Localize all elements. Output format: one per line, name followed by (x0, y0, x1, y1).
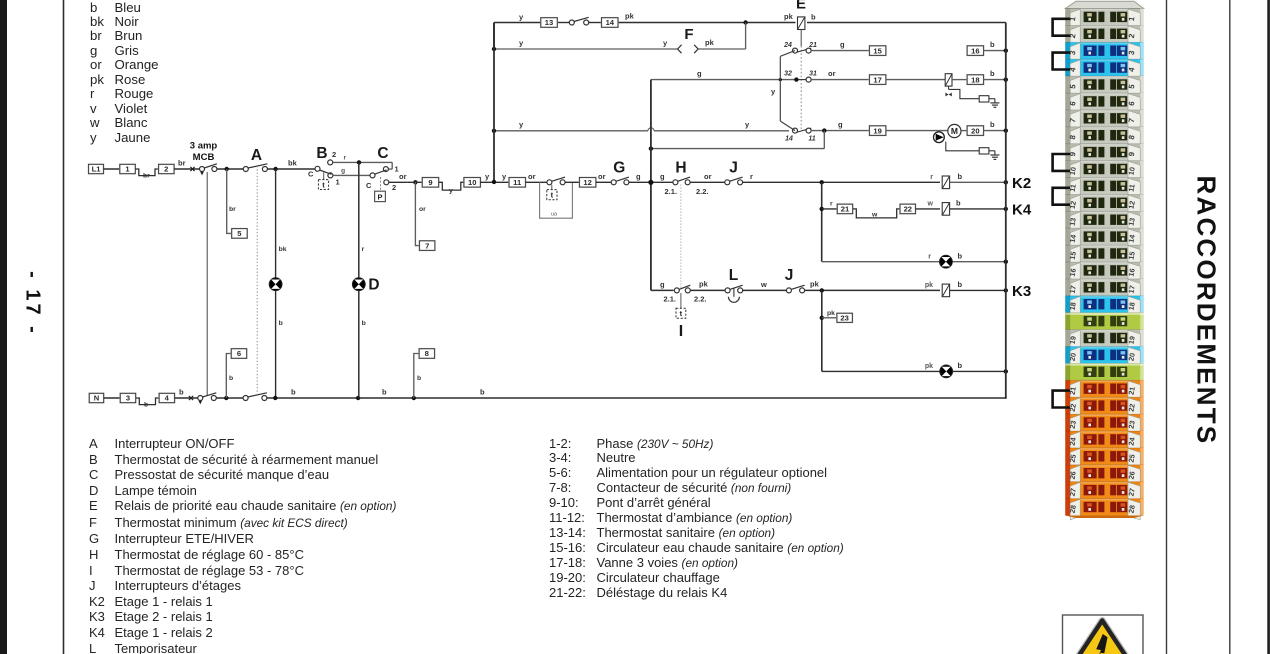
wire g return (651, 148, 824, 150)
svg-text:18: 18 (1068, 302, 1078, 311)
wire K4 vertical (821, 182, 823, 261)
svg-text:G: G (613, 160, 625, 177)
svg-text:20: 20 (1068, 352, 1078, 361)
wire 19-M (886, 130, 948, 132)
jumper bridge terminals 3-4 (1053, 53, 1070, 70)
svg-text:b: b (990, 120, 995, 129)
svg-text:C: C (377, 145, 388, 162)
terminal box 7 (419, 241, 435, 251)
switch J2 (786, 288, 791, 293)
breaker MCB neutral (198, 396, 203, 401)
node F left (492, 47, 496, 51)
node (356, 396, 360, 400)
terminal strip top cap (1065, 1, 1143, 8)
svg-text:14: 14 (1127, 234, 1137, 243)
svg-text:b: b (990, 69, 995, 78)
svg-text:D: D (368, 277, 379, 294)
wire pk lamp line (822, 370, 940, 372)
svg-text:2.2.: 2.2. (694, 295, 707, 304)
svg-text:24: 24 (1127, 437, 1137, 446)
svg-text:y: y (449, 188, 453, 195)
svg-text:w: w (927, 201, 934, 208)
breaker MCB phase (200, 167, 205, 172)
svg-text:or: or (828, 69, 836, 78)
svg-text:14: 14 (606, 18, 615, 27)
svg-text:J: J (785, 267, 794, 284)
node or junction (413, 180, 417, 184)
svg-text:24: 24 (783, 42, 792, 49)
terminal box 2 (159, 164, 175, 173)
lamp D indicator (352, 278, 365, 291)
node (225, 167, 229, 171)
wire g rail (650, 80, 652, 291)
warning triangle (1076, 621, 1128, 654)
svg-text:y: y (485, 172, 490, 181)
wire B2 bypass (333, 161, 393, 163)
terminal box 4 (159, 393, 175, 402)
svg-text:b: b (417, 375, 421, 382)
svg-text:15: 15 (1127, 251, 1137, 260)
svg-text:pk: pk (784, 12, 794, 21)
svg-text:15: 15 (1068, 251, 1078, 260)
terminal row 16 (1065, 262, 1143, 279)
wire g to E (651, 79, 795, 81)
svg-text:b: b (291, 388, 296, 397)
svg-text:br: br (229, 206, 236, 213)
terminal box 16 (967, 46, 984, 56)
svg-text:13: 13 (1068, 217, 1078, 226)
svg-text:18: 18 (971, 75, 979, 84)
svg-text:b: b (958, 361, 963, 370)
terminal row 11 (1065, 178, 1143, 195)
terminal row 18 (1065, 296, 1143, 313)
switch A (243, 167, 248, 172)
terminal box 5 (232, 229, 248, 239)
lamp indicator (269, 278, 282, 291)
svg-text:11: 11 (808, 136, 815, 143)
svg-text:w: w (760, 280, 767, 289)
wire to box8 (414, 354, 420, 399)
terminal box 20 (967, 126, 984, 136)
page border line left (63, 0, 65, 654)
svg-text:2: 2 (164, 165, 168, 174)
svg-text:pk: pk (625, 12, 635, 21)
terminal row 24 (1065, 431, 1143, 448)
svg-text:b: b (229, 375, 233, 382)
wire to box6 (226, 354, 231, 399)
terminal row 21 (1065, 380, 1143, 397)
thermostat B (315, 166, 320, 171)
wire (950, 289, 1006, 291)
svg-text:3 amp: 3 amp (190, 141, 218, 152)
svg-text:25: 25 (1127, 454, 1137, 463)
column line 1 (1166, 0, 1168, 654)
svg-text:or: or (598, 172, 606, 181)
terminal box 10 (464, 178, 481, 188)
wire (916, 208, 940, 210)
svg-text:17: 17 (1127, 285, 1137, 294)
wire (989, 150, 995, 152)
svg-text:B: B (316, 145, 327, 162)
svg-text:b: b (382, 388, 387, 397)
wire y line (494, 130, 648, 132)
svg-text:10: 10 (1127, 166, 1137, 175)
svg-text:26: 26 (1127, 471, 1137, 480)
svg-text:b: b (279, 320, 283, 327)
wire (596, 181, 612, 183)
wire C out (389, 181, 407, 183)
node rail 16 (1004, 48, 1008, 52)
wire (104, 397, 121, 399)
node rail bottom (492, 180, 496, 184)
node rail lamp (1004, 260, 1008, 264)
wire valve-ground (949, 89, 980, 98)
svg-text:19: 19 (1068, 335, 1078, 344)
terminal row earth-green (1065, 363, 1143, 380)
svg-text:K4: K4 (1012, 202, 1032, 219)
terminal box 6 (231, 349, 247, 359)
wire N corner (1005, 397, 1007, 399)
svg-text:pk: pk (705, 38, 715, 47)
thermostat t box I (676, 308, 686, 318)
switch G (611, 180, 616, 185)
svg-text:b: b (480, 388, 485, 397)
svg-text:27: 27 (1068, 487, 1078, 496)
node rail K2 (1004, 180, 1008, 184)
svg-text:20: 20 (971, 126, 979, 135)
svg-text:b: b (956, 199, 961, 208)
node (273, 167, 277, 171)
relay coil K2 (942, 176, 949, 189)
svg-text:w: w (871, 212, 878, 219)
node rail K3 (1004, 288, 1008, 292)
svg-text:10: 10 (468, 178, 476, 187)
component legend (89, 436, 396, 654)
terminal row 2 (1065, 25, 1143, 42)
node y left (492, 129, 496, 133)
svg-text:b: b (958, 172, 963, 181)
svg-text:I: I (679, 323, 683, 340)
wire 20-rail (984, 130, 1006, 132)
wire K3 vertical (821, 290, 823, 371)
svg-text:y: y (519, 13, 524, 22)
svg-text:11: 11 (513, 178, 522, 187)
terminal row 9 (1065, 144, 1143, 161)
terminal row 8 (1065, 127, 1143, 144)
svg-text:3: 3 (126, 394, 130, 403)
node 11 junction (822, 128, 826, 132)
svg-text:b: b (362, 320, 366, 327)
wire wiggle b (136, 398, 159, 405)
wire (481, 181, 510, 183)
terminal box 3 (120, 393, 136, 402)
terminal box 15 (869, 46, 886, 56)
page left black margin bar (0, 0, 7, 654)
pump symbol (934, 132, 945, 143)
terminal row 22 (1065, 397, 1143, 414)
terminal box 21 (837, 204, 853, 214)
jumper bridge terminals 9-10 (1053, 154, 1070, 171)
timer L (725, 288, 730, 293)
svg-text:or: or (419, 206, 426, 213)
node (273, 396, 277, 400)
wire (104, 168, 121, 170)
terminal box 18 (967, 75, 984, 85)
terminal box 12 (579, 178, 596, 188)
svg-text:A: A (251, 147, 262, 164)
wire 21-15 (811, 50, 870, 52)
svg-text:2.2.: 2.2. (696, 187, 709, 196)
wire (175, 397, 198, 399)
terminal box 9 (422, 178, 439, 188)
thermostat housing (540, 182, 573, 218)
jumper bridge terminals 11-12 (1053, 188, 1070, 205)
svg-text:b: b (179, 388, 184, 397)
svg-text:g: g (660, 172, 665, 181)
svg-text:32: 32 (784, 71, 792, 78)
terminal row 19 (1065, 330, 1143, 347)
svg-text:br: br (178, 159, 186, 168)
wire (989, 98, 995, 100)
wire wiggle y (439, 182, 465, 190)
node (224, 396, 228, 400)
terminal row 13 (1065, 211, 1143, 228)
wire (743, 181, 940, 183)
wire B t-link (323, 172, 325, 179)
terminal box L1 (89, 164, 104, 173)
svg-text:2.1.: 2.1. (665, 187, 678, 196)
terminal row 15 (1065, 245, 1143, 262)
lamp K3 indicator (940, 365, 953, 378)
svg-text:L: L (729, 267, 738, 284)
wire I t-link (680, 293, 682, 308)
svg-text:H: H (675, 160, 686, 177)
svg-text:g: g (660, 280, 665, 289)
svg-text:17: 17 (873, 75, 881, 84)
terminal box 1 (120, 164, 136, 173)
svg-text:pk: pk (827, 310, 835, 317)
svg-text:or: or (528, 172, 536, 181)
svg-text:b: b (144, 402, 148, 409)
relay coil K4 (942, 203, 949, 216)
wire colour legend (90, 1, 159, 146)
wire M-ground (946, 142, 979, 151)
svg-text:23: 23 (1068, 420, 1078, 429)
ground (994, 151, 996, 155)
node 23 junction (820, 316, 824, 320)
svg-text:b: b (958, 280, 963, 289)
svg-text:6: 6 (237, 349, 241, 358)
wire (407, 181, 422, 183)
terminal row 10 (1065, 161, 1143, 178)
pressostat C (370, 173, 375, 178)
svg-text:r: r (830, 201, 833, 208)
svg-text:MCB: MCB (193, 152, 215, 163)
svg-text:2: 2 (392, 183, 396, 192)
svg-text:g: g (341, 168, 345, 175)
terminal row 20 (1065, 347, 1143, 364)
lamp K2 indicator (940, 255, 953, 268)
terminal row 6 (1065, 93, 1143, 110)
svg-text:11: 11 (1127, 183, 1137, 192)
svg-text:16: 16 (1068, 268, 1078, 277)
svg-text:9: 9 (428, 178, 432, 187)
svg-text:r: r (344, 155, 347, 162)
terminal row 26 (1065, 465, 1143, 482)
wire 11-19 (811, 130, 870, 132)
terminal row 23 (1065, 414, 1143, 431)
svg-text:or: or (704, 172, 712, 181)
svg-text:23: 23 (840, 314, 848, 323)
svg-text:13: 13 (545, 18, 553, 27)
svg-text:y: y (663, 39, 668, 48)
RACCORDEMENTS title (1191, 176, 1222, 436)
wire (950, 208, 1006, 210)
svg-text:g: g (697, 69, 702, 78)
svg-text:ua: ua (551, 212, 557, 218)
svg-text:19: 19 (1127, 335, 1137, 344)
node F junction (743, 20, 747, 24)
svg-text:b: b (958, 252, 963, 261)
svg-text:C: C (308, 170, 314, 179)
wire lamp D (358, 162, 360, 277)
svg-text:18: 18 (1127, 302, 1137, 311)
svg-text:r: r (930, 174, 933, 181)
terminal strip bottom cap (1065, 516, 1143, 519)
svg-text:8: 8 (425, 349, 429, 358)
wire (822, 317, 837, 319)
terminal row 3 (1065, 42, 1143, 59)
wire 18-rail (984, 79, 1006, 81)
contact E 14-11 (796, 128, 811, 132)
terminal box 14 (602, 18, 619, 28)
terminal box 8 (419, 349, 435, 359)
column line 2 (1229, 0, 1231, 654)
svg-text:16: 16 (971, 46, 979, 55)
mcb x mark N (189, 396, 193, 400)
svg-text:K2: K2 (1012, 175, 1031, 192)
wire to box7 (415, 182, 419, 245)
svg-text:y: y (519, 39, 524, 48)
node rail K4 (1004, 207, 1008, 211)
valve symbol (948, 86, 950, 89)
wire 31-17 (811, 79, 870, 81)
wire to box5 (227, 169, 232, 233)
node (412, 396, 416, 400)
wire wiggle w (853, 209, 900, 218)
svg-text:N: N (94, 394, 99, 403)
svg-text:16: 16 (1127, 268, 1137, 277)
svg-text:r: r (362, 246, 365, 253)
svg-text:1: 1 (336, 178, 340, 187)
node contact 32 (796, 79, 806, 81)
svg-text:y: y (745, 120, 750, 129)
wire 17-valve (886, 79, 945, 81)
warning sign box (1063, 615, 1144, 654)
svg-text:pk: pk (699, 280, 709, 289)
switch I (674, 288, 679, 293)
node rail lamp2 (1004, 369, 1008, 373)
box (979, 148, 989, 154)
svg-text:g: g (840, 40, 845, 49)
svg-text:bk: bk (279, 246, 287, 253)
node K2 junction (820, 180, 824, 184)
ground (994, 99, 996, 103)
node g return (649, 146, 653, 150)
wire A link dotted (256, 166, 258, 394)
svg-text:b: b (990, 40, 995, 49)
wire bk lamp (275, 169, 277, 278)
node K4 junction (820, 207, 824, 211)
svg-text:pk: pk (810, 280, 820, 289)
svg-text:y: y (519, 120, 524, 129)
page number (21, 259, 44, 349)
node top-left corner (493, 23, 495, 50)
page border line right (1267, 0, 1270, 654)
terminal row 14 (1065, 228, 1143, 245)
svg-text:21: 21 (841, 205, 850, 214)
box (979, 96, 989, 102)
switch 13-14 (569, 20, 574, 25)
svg-text:20: 20 (1127, 352, 1137, 361)
wire (216, 397, 243, 399)
node rail 18 (1004, 77, 1008, 81)
wire t-link (551, 185, 553, 190)
svg-text:25: 25 (1068, 454, 1078, 463)
motor M (948, 124, 961, 137)
terminal row 27 (1065, 482, 1143, 499)
svg-text:31: 31 (809, 71, 817, 78)
svg-text:J: J (729, 160, 738, 177)
svg-text:y: y (771, 87, 776, 96)
wire B1-C (333, 174, 370, 176)
wire N bus (267, 397, 1006, 399)
wire MCB link (206, 172, 208, 395)
svg-text:21: 21 (808, 42, 817, 49)
svg-text:28: 28 (1127, 504, 1137, 513)
svg-text:P: P (377, 192, 382, 201)
svg-text:26: 26 (1068, 471, 1078, 480)
svg-text:r: r (928, 254, 931, 261)
terminal row 28 (1065, 499, 1143, 516)
wire r lamp line (822, 261, 940, 263)
svg-text:21: 21 (1127, 386, 1137, 395)
terminal box 11 (509, 178, 526, 188)
contact E 24-21 (796, 48, 811, 52)
svg-text:24: 24 (1068, 437, 1078, 446)
wire (217, 168, 243, 170)
wire E link (800, 30, 802, 46)
terminal row 7 (1065, 110, 1143, 127)
svg-text:g: g (838, 120, 843, 129)
svg-text:15: 15 (873, 46, 882, 55)
svg-text:b: b (811, 13, 816, 22)
wire (950, 181, 1006, 183)
svg-text:19: 19 (873, 126, 881, 135)
svg-text:L1: L1 (92, 165, 102, 174)
svg-text:g: g (636, 172, 641, 181)
svg-text:bk: bk (288, 159, 298, 168)
wire 16-rail (984, 50, 1006, 52)
terminal row 12 (1065, 194, 1143, 211)
wire (690, 181, 725, 183)
wire F line (494, 48, 678, 50)
wire (822, 208, 838, 210)
pressostat P box (375, 191, 386, 201)
svg-text:14: 14 (1068, 234, 1078, 243)
svg-text:C: C (366, 181, 372, 190)
wire (629, 181, 673, 183)
